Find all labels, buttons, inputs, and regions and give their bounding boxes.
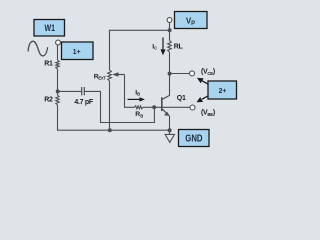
resistor RB [135, 106, 144, 109]
scope channel 2+ label box [208, 81, 237, 99]
wire Vp to RL [169, 23, 171, 41]
wire node to C1 [58, 90, 82, 92]
wire RB to Q1 base and VBE terminal [143, 106, 190, 108]
junction emitter-ground rail [168, 128, 172, 132]
svg-text:R1: R1 [44, 60, 53, 67]
wire Vp rail to Rext top [110, 30, 170, 70]
junction base node [152, 105, 156, 109]
wire wiper to RB [125, 75, 135, 108]
junction collector node [168, 72, 172, 76]
terminal Vp (open circle) [167, 18, 172, 23]
junction Vp rail [168, 28, 172, 32]
probe arrow 2+ to VCE [197, 78, 208, 84]
wire C1 to base node [84, 91, 154, 122]
svg-text:4.7 pF: 4.7 pF [74, 99, 93, 106]
svg-text:1+: 1+ [73, 47, 81, 56]
svg-text:R2: R2 [44, 97, 53, 104]
GND label box [179, 130, 210, 147]
resistor RL [168, 41, 172, 53]
wire emitter to ground rail [169, 116, 171, 130]
junction divider node [56, 89, 60, 93]
Rext wiper arrow [112, 72, 124, 77]
capacitor C1 4.7pF [82, 87, 85, 95]
probe arrow 2+ to VBE [197, 96, 209, 103]
svg-text:W1: W1 [45, 23, 56, 34]
current IC arrow [160, 38, 165, 56]
svg-text:2+: 2+ [219, 86, 227, 95]
wire R1 to divider node [57, 69, 59, 95]
ground symbol [165, 130, 174, 142]
transistor Q1 (NPN) [162, 95, 170, 116]
terminal VCE (open circle) [190, 71, 195, 76]
terminal W1 output (open circle) [56, 40, 61, 45]
wire W1 terminal to R1 [57, 45, 59, 60]
junction Rext-ground rail [108, 128, 112, 132]
potentiometer Rext [108, 70, 112, 81]
supply Vp label box [175, 12, 208, 29]
wire Rext bottom to ground rail [109, 81, 111, 130]
current IB arrow [128, 97, 146, 101]
svg-text:RL: RL [174, 44, 184, 51]
sine wave symbol (W1 source) [28, 41, 48, 56]
wire R2 to ground rail [58, 105, 170, 130]
wire collector to VCE terminal [170, 73, 190, 75]
resistor R1 [56, 60, 59, 69]
resistor R2 [56, 95, 59, 105]
svg-text:Q1: Q1 [177, 95, 186, 102]
scope channel 1+ label box [62, 42, 94, 60]
svg-text:GND: GND [185, 133, 202, 144]
AWG W1 label box [34, 20, 65, 37]
wire RL to collector [169, 52, 171, 96]
terminal VBE (open circle) [190, 105, 195, 110]
